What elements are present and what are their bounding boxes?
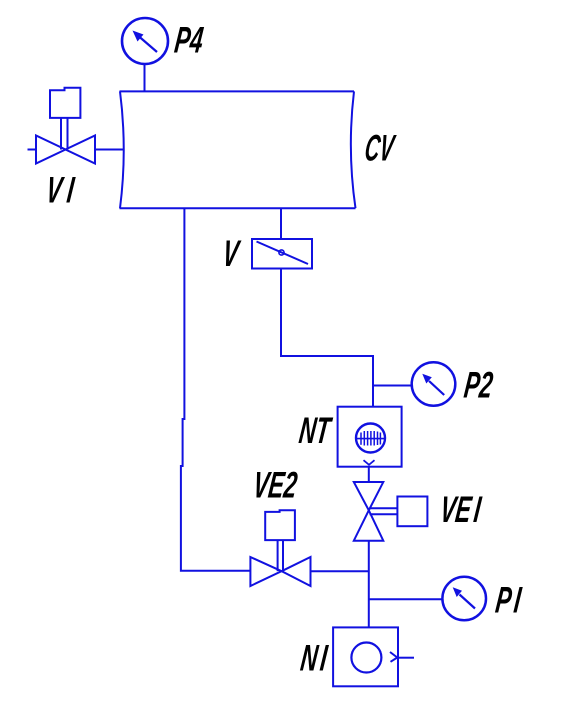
wire P2 stub [373, 385, 413, 387]
vessel CV [120, 91, 356, 208]
svg-text:VI: VI [44, 169, 77, 211]
svg-text:VEI: VEI [438, 489, 484, 531]
svg-text:P2: P2 [462, 364, 495, 406]
wire P1 stub [369, 598, 444, 600]
pressure gauge P2 [412, 362, 456, 406]
wire V1 to vessel [95, 149, 124, 151]
valve VE2 stem [278, 540, 283, 571]
svg-text:CV: CV [362, 129, 398, 170]
valve V1 actuator [50, 88, 80, 118]
NT outlet chevron [364, 460, 375, 465]
restrictor V [252, 239, 312, 269]
svg-text:P4: P4 [172, 19, 205, 61]
valve V1 stem [61, 118, 68, 150]
svg-text:NT: NT [297, 410, 335, 452]
valve VE2 body [250, 557, 310, 586]
svg-text:VE2: VE2 [251, 464, 299, 506]
pump N1 [333, 627, 398, 686]
wire P4 stem [144, 64, 146, 91]
svg-text:NI: NI [298, 637, 330, 679]
wire vessel to VE2 (long left drop) [181, 208, 251, 571]
valve VE2 actuator [265, 510, 295, 540]
svg-text:PI: PI [493, 579, 524, 621]
wire N1 right stub [398, 657, 414, 659]
pressure gauge P1 [442, 577, 486, 621]
wire VE2 to main line [311, 570, 369, 572]
wire vessel to V [280, 208, 282, 239]
valve V1 body [36, 136, 95, 164]
valve VE1 body [354, 482, 384, 541]
valve VE1 stem [370, 508, 398, 514]
wire V1 left stub [28, 149, 37, 151]
wire V to NT [281, 269, 373, 407]
heater NT [338, 407, 402, 467]
wire VE1 to N1 (main vertical) [368, 541, 370, 628]
pressure gauge P4 [122, 18, 168, 64]
svg-text:V: V [220, 233, 242, 275]
N1 shaft chevron [390, 652, 397, 662]
valve VE1 actuator [397, 497, 427, 527]
wire NT to VE1 [368, 467, 370, 482]
